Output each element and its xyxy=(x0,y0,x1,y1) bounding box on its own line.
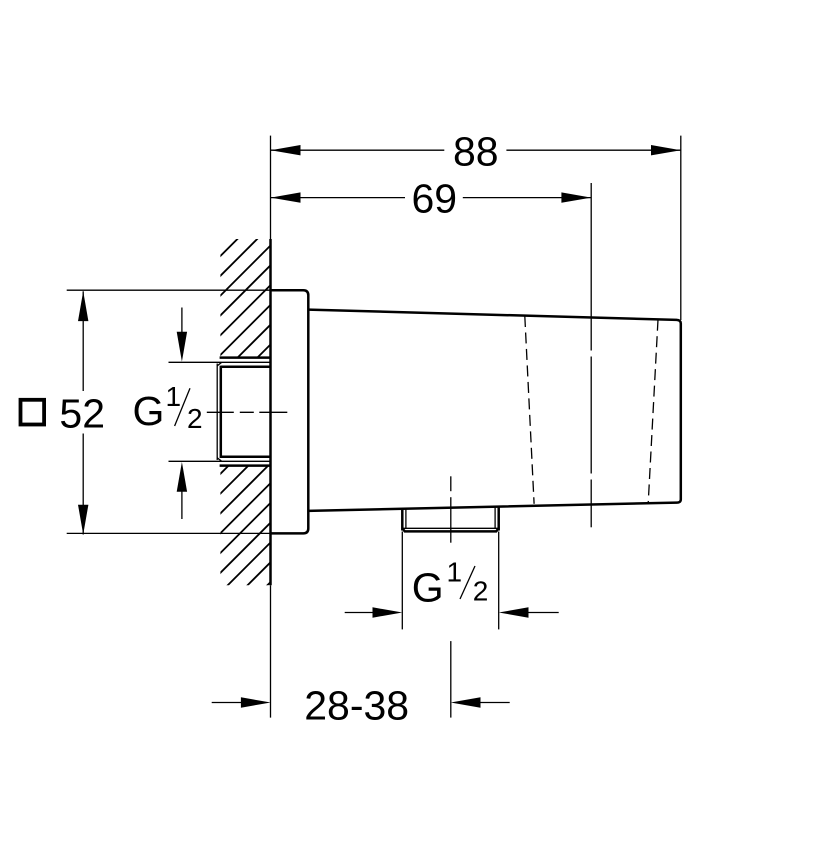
dimension 52 bottom arrowhead xyxy=(78,505,88,535)
spout axis center line long dash xyxy=(450,497,452,543)
extension line wall face upper (dims 88 and 69) xyxy=(270,136,272,239)
dimension 52 line upper segment xyxy=(82,291,84,391)
spout axis extension line (dim 28-38) xyxy=(450,641,452,718)
outlet spout end face with chamfers xyxy=(402,528,498,531)
dimension 69 line right segment xyxy=(463,197,591,199)
holder hidden profile left dashed line xyxy=(525,316,534,504)
dimension 88 right arrowhead xyxy=(651,145,681,155)
inlet chamfer top xyxy=(217,363,221,366)
inlet thread core top line xyxy=(221,366,271,369)
dimension 28-38 left leader line xyxy=(212,702,242,704)
body tapered holder outline xyxy=(308,310,681,511)
svg-text:2: 2 xyxy=(187,403,203,434)
inlet chamfer bottom xyxy=(217,458,221,461)
svg-text:1: 1 xyxy=(166,381,182,412)
wall hole bottom edge xyxy=(220,464,271,467)
outlet dimension left arrowhead xyxy=(373,607,403,617)
outlet label fraction slash xyxy=(460,566,475,599)
dimension 28-38 left arrowhead xyxy=(241,697,271,707)
inlet thread G1/2 outer diameter bottom line (extension line) xyxy=(169,460,271,462)
outlet dimension left leader line xyxy=(345,612,374,614)
svg-text:1: 1 xyxy=(447,556,463,587)
spout axis center line short dash xyxy=(450,476,452,491)
inlet thread bottom arrowhead xyxy=(177,462,187,492)
holder axis segment 3 xyxy=(590,480,592,528)
extension line body right edge (dim 88) xyxy=(680,136,682,320)
inlet thread OD end line xyxy=(216,364,218,461)
dimension 69 left arrowhead xyxy=(271,192,301,202)
holder hidden profile right dashed line xyxy=(648,320,658,504)
inlet label fraction slash xyxy=(175,388,190,426)
inlet thread bottom leader line xyxy=(181,491,183,520)
dimension 28-38 right leader line xyxy=(479,702,510,704)
svg-text:69: 69 xyxy=(411,176,457,222)
dimension 88 line right segment xyxy=(506,149,680,151)
dimension 52 top arrowhead xyxy=(78,291,88,321)
outlet dimension right leader line xyxy=(527,612,559,614)
inlet thread top arrowhead xyxy=(177,332,187,362)
extension line wall face lower (dim 28-38) xyxy=(270,585,272,717)
extension line spout right edge xyxy=(498,532,500,630)
dimension 28-38 right arrowhead xyxy=(451,697,481,707)
svg-text:G: G xyxy=(133,388,165,434)
inlet axis center line xyxy=(207,411,287,413)
wall section hatching xyxy=(216,202,274,636)
svg-text:52: 52 xyxy=(59,391,105,437)
holder axis segment 2 xyxy=(590,357,592,474)
outlet spout thread root line xyxy=(404,527,498,529)
svg-text:G: G xyxy=(412,565,444,611)
wall flange escutcheon xyxy=(271,290,309,533)
outlet spout right thread line xyxy=(494,506,496,528)
svg-text:88: 88 xyxy=(453,128,499,174)
square section symbol xyxy=(21,400,45,425)
outlet spout left outer line xyxy=(401,508,404,530)
inlet thread G1/2 outer diameter top line (extension line) xyxy=(169,361,271,363)
dimension 69 right arrowhead xyxy=(561,192,591,202)
dimension 69 line left segment xyxy=(271,197,405,199)
outlet spout right outer line xyxy=(497,506,500,530)
dimension 88 line left segment xyxy=(271,149,445,151)
holder axis and 69 extension line segment 1 xyxy=(590,183,592,351)
outlet spout left thread line xyxy=(405,508,407,528)
extension line spout left edge xyxy=(401,532,403,630)
extension line flange top (dim 52) xyxy=(67,289,271,291)
inlet thread end face xyxy=(220,366,223,458)
svg-text:28-38: 28-38 xyxy=(304,683,409,729)
wall face line xyxy=(269,239,272,585)
extension line flange bottom (dim 52) xyxy=(67,532,271,534)
outlet dimension right arrowhead xyxy=(499,607,529,617)
svg-text:2: 2 xyxy=(473,576,489,607)
dimension 88 left arrowhead xyxy=(271,145,301,155)
dimension 52 line lower segment xyxy=(82,434,84,535)
wall hole top edge xyxy=(220,356,271,359)
inlet thread core bottom line xyxy=(221,456,271,459)
inlet thread top leader line xyxy=(181,308,183,334)
